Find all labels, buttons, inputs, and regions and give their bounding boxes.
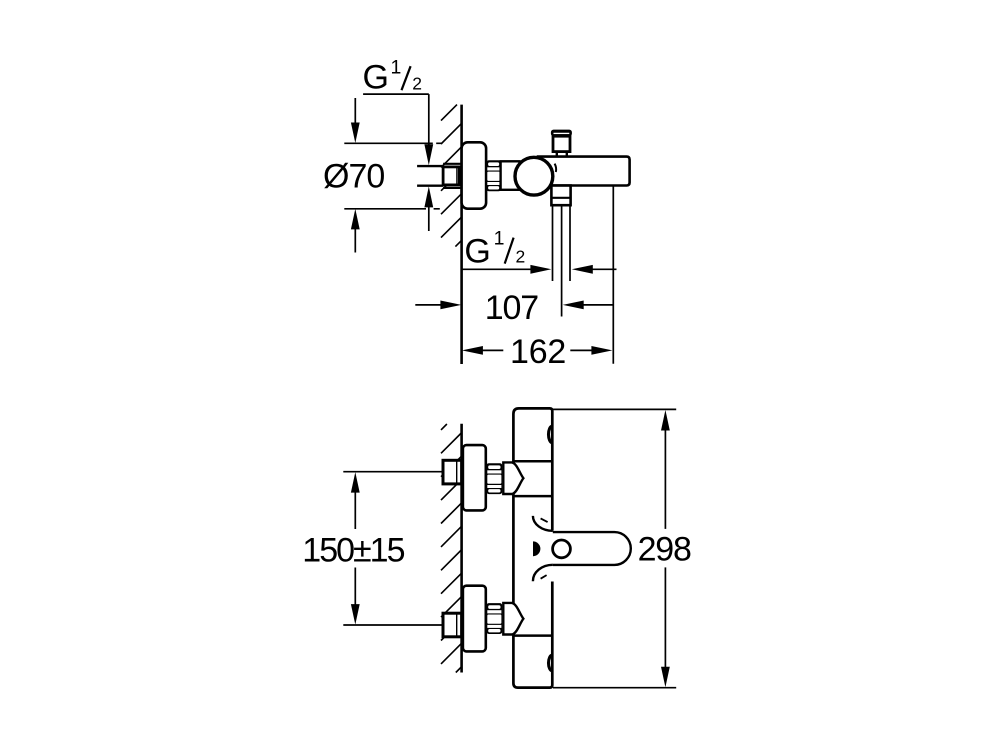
Ø70 lower arrow bbox=[351, 209, 360, 230]
wall hatching (top view) bbox=[441, 105, 461, 247]
supply pipe stub bbox=[417, 166, 443, 186]
upper escutcheon flange bbox=[463, 445, 486, 510]
upper square wall nut bbox=[443, 460, 462, 484]
G1/2 hose dimension arrows bbox=[462, 268, 532, 270]
lower hex union nut bbox=[486, 603, 502, 634]
fillet tick marks bbox=[541, 518, 548, 578]
svg-text:150±15: 150±15 bbox=[302, 531, 404, 569]
ball socket arc bbox=[555, 164, 557, 172]
svg-text:107: 107 bbox=[485, 289, 538, 327]
dimension: 150±15 bbox=[351, 472, 360, 493]
dimension: 107 bbox=[415, 304, 441, 306]
spout fillet bottom bbox=[533, 565, 553, 581]
connector sleeve bbox=[501, 161, 520, 190]
150±15 extension lines bbox=[343, 472, 443, 625]
svg-text:1: 1 bbox=[494, 227, 505, 249]
wall surface line (top view) bbox=[460, 105, 463, 364]
dimension: 162 bbox=[462, 346, 483, 355]
svg-text:162: 162 bbox=[510, 333, 566, 371]
dimension: 298 bbox=[553, 409, 676, 687]
Ø70 extension lines (dashed through wall) bbox=[344, 142, 442, 144]
svg-text:2: 2 bbox=[516, 246, 526, 266]
G1/2 hose extension lines bbox=[553, 205, 571, 316]
lower S-union cone bbox=[503, 603, 523, 635]
mixer body (top view) bbox=[538, 157, 630, 186]
shower hose nipple bbox=[551, 186, 570, 206]
wall hatching (bottom view) bbox=[441, 424, 461, 673]
svg-text:1: 1 bbox=[391, 57, 402, 79]
spout circle bbox=[553, 540, 571, 558]
G1/2 label underline + leader bbox=[363, 94, 429, 146]
svg-text:2: 2 bbox=[412, 74, 422, 94]
escutcheon flange Ø70 (top view) bbox=[462, 142, 487, 208]
upper hex union nut bbox=[486, 463, 502, 494]
tub spout (capsule) bbox=[553, 532, 631, 565]
square wall nut (top view) bbox=[443, 164, 461, 188]
wall surface line (bottom view) bbox=[460, 424, 463, 673]
svg-text:Ø70: Ø70 bbox=[323, 158, 384, 196]
svg-text:G: G bbox=[464, 233, 490, 271]
G1/2 lower arrow (pipe) bbox=[424, 186, 433, 207]
lower escutcheon flange bbox=[463, 586, 486, 652]
upper S-union cone bbox=[503, 462, 523, 494]
lower grub screw half-ellipse bbox=[549, 655, 553, 671]
lower square wall nut bbox=[443, 613, 462, 637]
diverter knob body bbox=[553, 136, 570, 151]
thermostat body (front view) bbox=[513, 408, 552, 687]
right extension line (spout tip) bbox=[612, 186, 614, 364]
spout fillet top bbox=[533, 516, 553, 531]
ball joint bbox=[515, 157, 553, 195]
svg-text:298: 298 bbox=[638, 531, 691, 569]
Ø70 upper arrow bbox=[354, 98, 356, 125]
svg-text:G: G bbox=[363, 59, 389, 97]
diverter knob cap bbox=[551, 130, 572, 137]
diverter knob stem bbox=[557, 152, 567, 157]
upper grub screw half-ellipse bbox=[549, 426, 553, 442]
hex union nut (top view) bbox=[487, 160, 502, 191]
body section lines bbox=[513, 461, 552, 635]
black half disc (lever mark) bbox=[533, 541, 540, 556]
